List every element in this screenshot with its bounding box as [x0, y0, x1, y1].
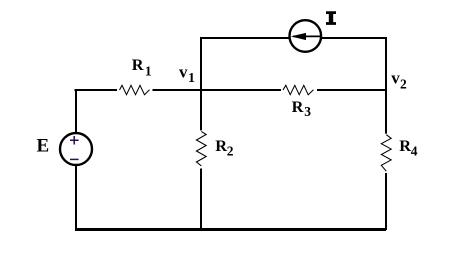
- svg-text:v: v: [391, 68, 400, 87]
- svg-text:R: R: [132, 55, 144, 74]
- wire E bottom lead down to bottom rail: [75, 165, 77, 230]
- label I: [326, 11, 336, 25]
- voltage source plus sign: [70, 136, 79, 145]
- svg-text:R: R: [215, 136, 227, 155]
- wire vertical from top loop down through node v1 to R2 top: [200, 37, 202, 130]
- svg-text:E: E: [37, 135, 50, 156]
- wire R3 right end to node v2: [317, 89, 386, 91]
- svg-text:R: R: [292, 97, 304, 116]
- wire R1 right end to R3 left end through node v1: [153, 89, 282, 91]
- resistor R3 zigzag: [283, 85, 314, 94]
- resistor R1 zigzag: [120, 85, 150, 94]
- wire bottom rail: [75, 228, 386, 231]
- svg-text:R: R: [399, 136, 411, 155]
- svg-text:3: 3: [304, 104, 311, 119]
- voltage source minus sign: [70, 158, 79, 160]
- wire top loop horizontal (v1 top corner to v2 top corner): [201, 37, 386, 39]
- wire E top lead up to main horizontal: [75, 89, 77, 133]
- svg-text:2: 2: [400, 76, 407, 91]
- current source I circle: [290, 20, 322, 52]
- wire right vertical from top loop through node v2 to R4 top: [385, 37, 387, 134]
- svg-text:4: 4: [411, 143, 418, 158]
- wire main horizontal: corner to R1 left end: [75, 89, 118, 91]
- resistor R2 zigzag: [196, 131, 206, 165]
- wire R4 bottom to bottom rail: [385, 173, 387, 230]
- svg-text:1: 1: [145, 63, 152, 78]
- voltage source E circle: [60, 133, 92, 165]
- current source arrow shaft: [293, 35, 322, 37]
- current source arrowhead (points left): [291, 33, 306, 40]
- svg-text:2: 2: [227, 143, 234, 158]
- resistor R4 zigzag: [381, 135, 391, 172]
- wire R2 bottom to bottom rail: [200, 169, 202, 231]
- svg-text:1: 1: [188, 71, 195, 86]
- svg-text:v: v: [179, 62, 188, 81]
